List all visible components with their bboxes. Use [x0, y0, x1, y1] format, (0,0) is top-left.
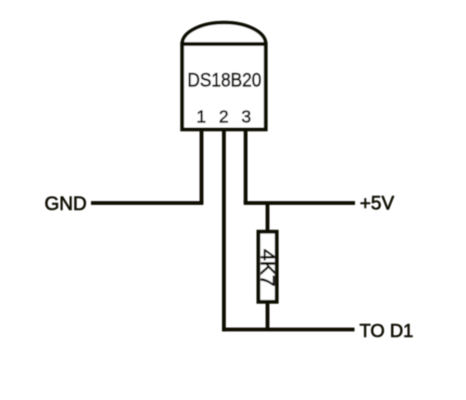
svg-text:3: 3 — [241, 107, 251, 127]
svg-text:GND: GND — [45, 194, 87, 215]
wire resistor bottom lead — [266, 300, 270, 330]
wire +5V horizontal — [244, 201, 355, 205]
sensor U1 DS18B20 TO-92 package body — [182, 44, 266, 129]
sensor U1 DS18B20 TO-92 package dome — [182, 22, 266, 44]
wire GND horizontal — [91, 201, 203, 205]
wire TO D1 horizontal — [222, 328, 355, 332]
svg-text:DS18B20: DS18B20 — [187, 70, 261, 91]
svg-text:+5V: +5V — [360, 194, 395, 215]
svg-text:1: 1 — [196, 107, 206, 127]
wire pin1 vertical to GND line — [200, 128, 204, 203]
wire resistor top lead — [266, 203, 270, 233]
wire pin3 vertical to +5V line — [244, 128, 248, 203]
svg-text:2: 2 — [219, 107, 229, 127]
wire pin2 vertical data line — [222, 128, 226, 331]
svg-text:TO D1: TO D1 — [360, 320, 414, 341]
resistor R1 body — [258, 232, 276, 302]
svg-text:4K7: 4K7 — [256, 249, 277, 287]
